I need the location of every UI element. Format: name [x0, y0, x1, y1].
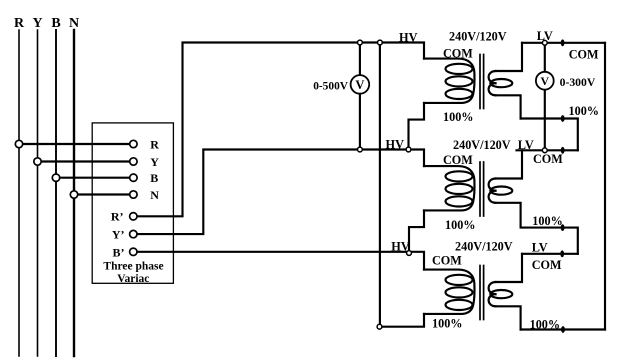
svg-text:R’: R’	[111, 210, 124, 224]
supply line B	[55, 30, 57, 356]
svg-text:R: R	[150, 138, 159, 152]
node HV1 voltmeter tap	[358, 40, 363, 45]
variac terminal N	[130, 191, 137, 198]
svg-text:100%: 100%	[532, 214, 562, 228]
node on line B	[52, 174, 59, 181]
variac terminal Y	[130, 158, 137, 165]
variac terminal Y'	[130, 230, 137, 237]
wire variac B' to HV3 line and T3 COM	[138, 252, 424, 270]
svg-text:Y: Y	[150, 155, 159, 169]
svg-text:LV: LV	[518, 138, 534, 152]
svg-text:Three phase: Three phase	[103, 260, 163, 272]
svg-text:100%: 100%	[443, 110, 473, 124]
wire T2 secondary 100% line	[521, 228, 578, 254]
node delta corner	[377, 324, 382, 329]
voltmeter U2 0-300V	[536, 72, 554, 90]
wire LV3 line	[522, 253, 578, 255]
wire voltmeter V1 branch	[359, 43, 361, 150]
svg-text:LV: LV	[537, 29, 553, 43]
node HV3 junction	[407, 251, 412, 256]
svg-text:COM: COM	[443, 153, 473, 167]
svg-text:240V/120V: 240V/120V	[449, 30, 507, 44]
wire secondary right bus	[604, 43, 606, 330]
junction dot T1 100%	[561, 115, 565, 122]
variac terminal B	[130, 174, 137, 181]
wire tap N to variac	[74, 193, 133, 195]
wire T1 secondary 100% line	[521, 119, 578, 151]
svg-text:V: V	[355, 78, 364, 92]
svg-text:0-500V: 0-500V	[313, 81, 349, 93]
node LV2	[542, 148, 547, 153]
transformer T1 240V/120V	[424, 43, 522, 119]
svg-text:B: B	[150, 171, 158, 185]
svg-text:0-300V: 0-300V	[560, 76, 596, 89]
variac terminal B'	[130, 248, 137, 255]
junction dot LV1-COM	[561, 39, 565, 46]
wire LV2 line	[517, 149, 578, 151]
wire primary delta return bus	[379, 43, 381, 327]
wire T2 100% down to HV3 node	[409, 210, 424, 253]
junction dot T3 100%	[561, 326, 565, 333]
variac box	[92, 123, 173, 283]
svg-text:HV: HV	[399, 30, 418, 44]
svg-text:COM: COM	[432, 254, 462, 268]
svg-text:COM: COM	[443, 46, 473, 60]
svg-text:COM: COM	[533, 152, 563, 166]
wire tap B to variac	[56, 177, 133, 179]
wire LV1 line to right bus	[522, 42, 605, 44]
wire T3 secondary 100% line	[521, 328, 605, 330]
wire voltmeter V2 branch	[544, 43, 546, 151]
wire T1 100% down to HV2 node	[409, 103, 425, 150]
node LV1	[542, 40, 547, 45]
junction dot LV2-COM	[561, 147, 565, 154]
node HV2 junction	[406, 147, 411, 152]
svg-text:COM: COM	[569, 48, 599, 62]
svg-text:100%: 100%	[530, 318, 560, 332]
variac terminal R'	[130, 213, 137, 220]
svg-text:HV: HV	[386, 138, 405, 152]
svg-text:Y: Y	[32, 16, 42, 31]
node on line R	[15, 140, 22, 147]
svg-text:Y’: Y’	[112, 228, 125, 242]
junction dot T2 100%	[561, 224, 565, 231]
svg-text:R: R	[14, 16, 25, 31]
svg-text:HV: HV	[391, 239, 410, 253]
wire tap Y to variac	[38, 160, 134, 162]
svg-text:LV: LV	[532, 240, 548, 254]
supply line Y	[37, 30, 39, 356]
svg-text:240V/120V: 240V/120V	[455, 239, 513, 253]
svg-text:B’: B’	[113, 246, 125, 260]
svg-text:B: B	[51, 16, 60, 31]
svg-text:100%: 100%	[432, 316, 462, 330]
svg-text:Variac: Variac	[117, 273, 149, 285]
wire T3 100% down to delta corner	[380, 314, 425, 327]
node HV1 delta bus tap	[378, 40, 383, 45]
svg-text:N: N	[69, 16, 79, 31]
supply line R	[18, 30, 20, 356]
transformer T2 240V/120V	[424, 150, 522, 226]
wire tap R to variac	[19, 143, 133, 145]
junction dot LV3-COM	[560, 250, 564, 257]
svg-text:240V/120V: 240V/120V	[453, 138, 511, 152]
wire variac R' to HV1 line and T1 COM	[138, 43, 424, 217]
voltmeter U1 0-500V	[351, 75, 370, 94]
svg-text:V: V	[541, 74, 550, 88]
svg-text:N: N	[150, 188, 159, 202]
svg-text:100%: 100%	[569, 104, 599, 118]
node on line N	[70, 191, 77, 198]
node HV2 voltmeter tap	[358, 147, 363, 152]
transformer T3 240V/120V	[424, 254, 522, 330]
svg-text:COM: COM	[532, 258, 562, 272]
wire variac Y' to HV2 line and T2 COM	[138, 150, 424, 235]
variac terminal R	[130, 140, 137, 147]
node on line Y	[34, 158, 41, 165]
svg-text:100%: 100%	[445, 218, 475, 232]
supply line N	[73, 30, 75, 356]
